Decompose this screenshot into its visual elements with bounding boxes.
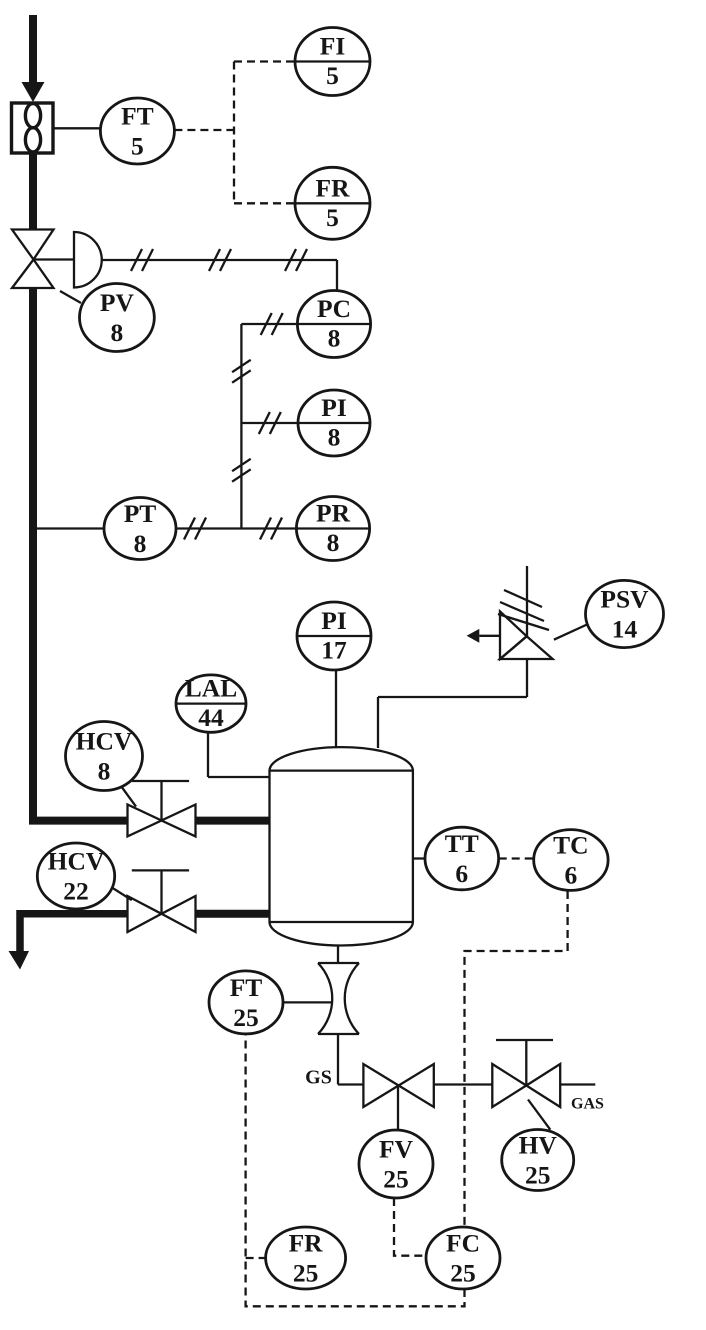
svg-text:8: 8 (327, 528, 340, 557)
svg-text:5: 5 (131, 132, 144, 161)
svg-text:6: 6 (565, 861, 578, 890)
svg-text:8: 8 (98, 757, 111, 786)
svg-text:FV: FV (379, 1135, 414, 1164)
svg-text:8: 8 (134, 529, 147, 558)
svg-text:14: 14 (612, 615, 638, 644)
svg-text:44: 44 (198, 703, 224, 732)
svg-text:PSV: PSV (600, 585, 649, 614)
svg-text:GAS: GAS (571, 1096, 604, 1113)
svg-text:TT: TT (445, 829, 479, 858)
svg-text:PR: PR (316, 499, 351, 528)
svg-text:PI: PI (321, 606, 347, 635)
svg-text:PC: PC (317, 294, 351, 323)
svg-text:6: 6 (455, 859, 468, 888)
svg-text:17: 17 (321, 636, 347, 665)
svg-text:PV: PV (100, 288, 135, 317)
svg-text:25: 25 (525, 1161, 551, 1190)
svg-text:HCV: HCV (76, 727, 133, 756)
svg-text:FI: FI (320, 32, 346, 61)
svg-text:FT: FT (121, 102, 154, 131)
svg-text:25: 25 (383, 1165, 409, 1194)
svg-text:5: 5 (326, 203, 339, 232)
svg-text:8: 8 (111, 318, 124, 347)
svg-text:25: 25 (450, 1259, 476, 1288)
svg-text:PI: PI (321, 393, 347, 422)
svg-text:FC: FC (446, 1229, 480, 1258)
svg-text:8: 8 (328, 423, 341, 452)
svg-text:HCV: HCV (48, 847, 105, 876)
svg-text:5: 5 (326, 61, 339, 90)
svg-text:HV: HV (519, 1131, 558, 1160)
svg-text:FT: FT (230, 973, 263, 1002)
svg-text:GS: GS (305, 1067, 332, 1089)
svg-text:FR: FR (289, 1229, 324, 1258)
svg-text:PT: PT (124, 499, 157, 528)
svg-text:FR: FR (316, 173, 351, 202)
svg-text:25: 25 (293, 1259, 319, 1288)
svg-text:25: 25 (233, 1003, 259, 1032)
svg-text:8: 8 (328, 324, 341, 353)
svg-text:TC: TC (553, 831, 588, 860)
svg-text:LAL: LAL (185, 674, 237, 703)
svg-text:22: 22 (63, 877, 89, 906)
